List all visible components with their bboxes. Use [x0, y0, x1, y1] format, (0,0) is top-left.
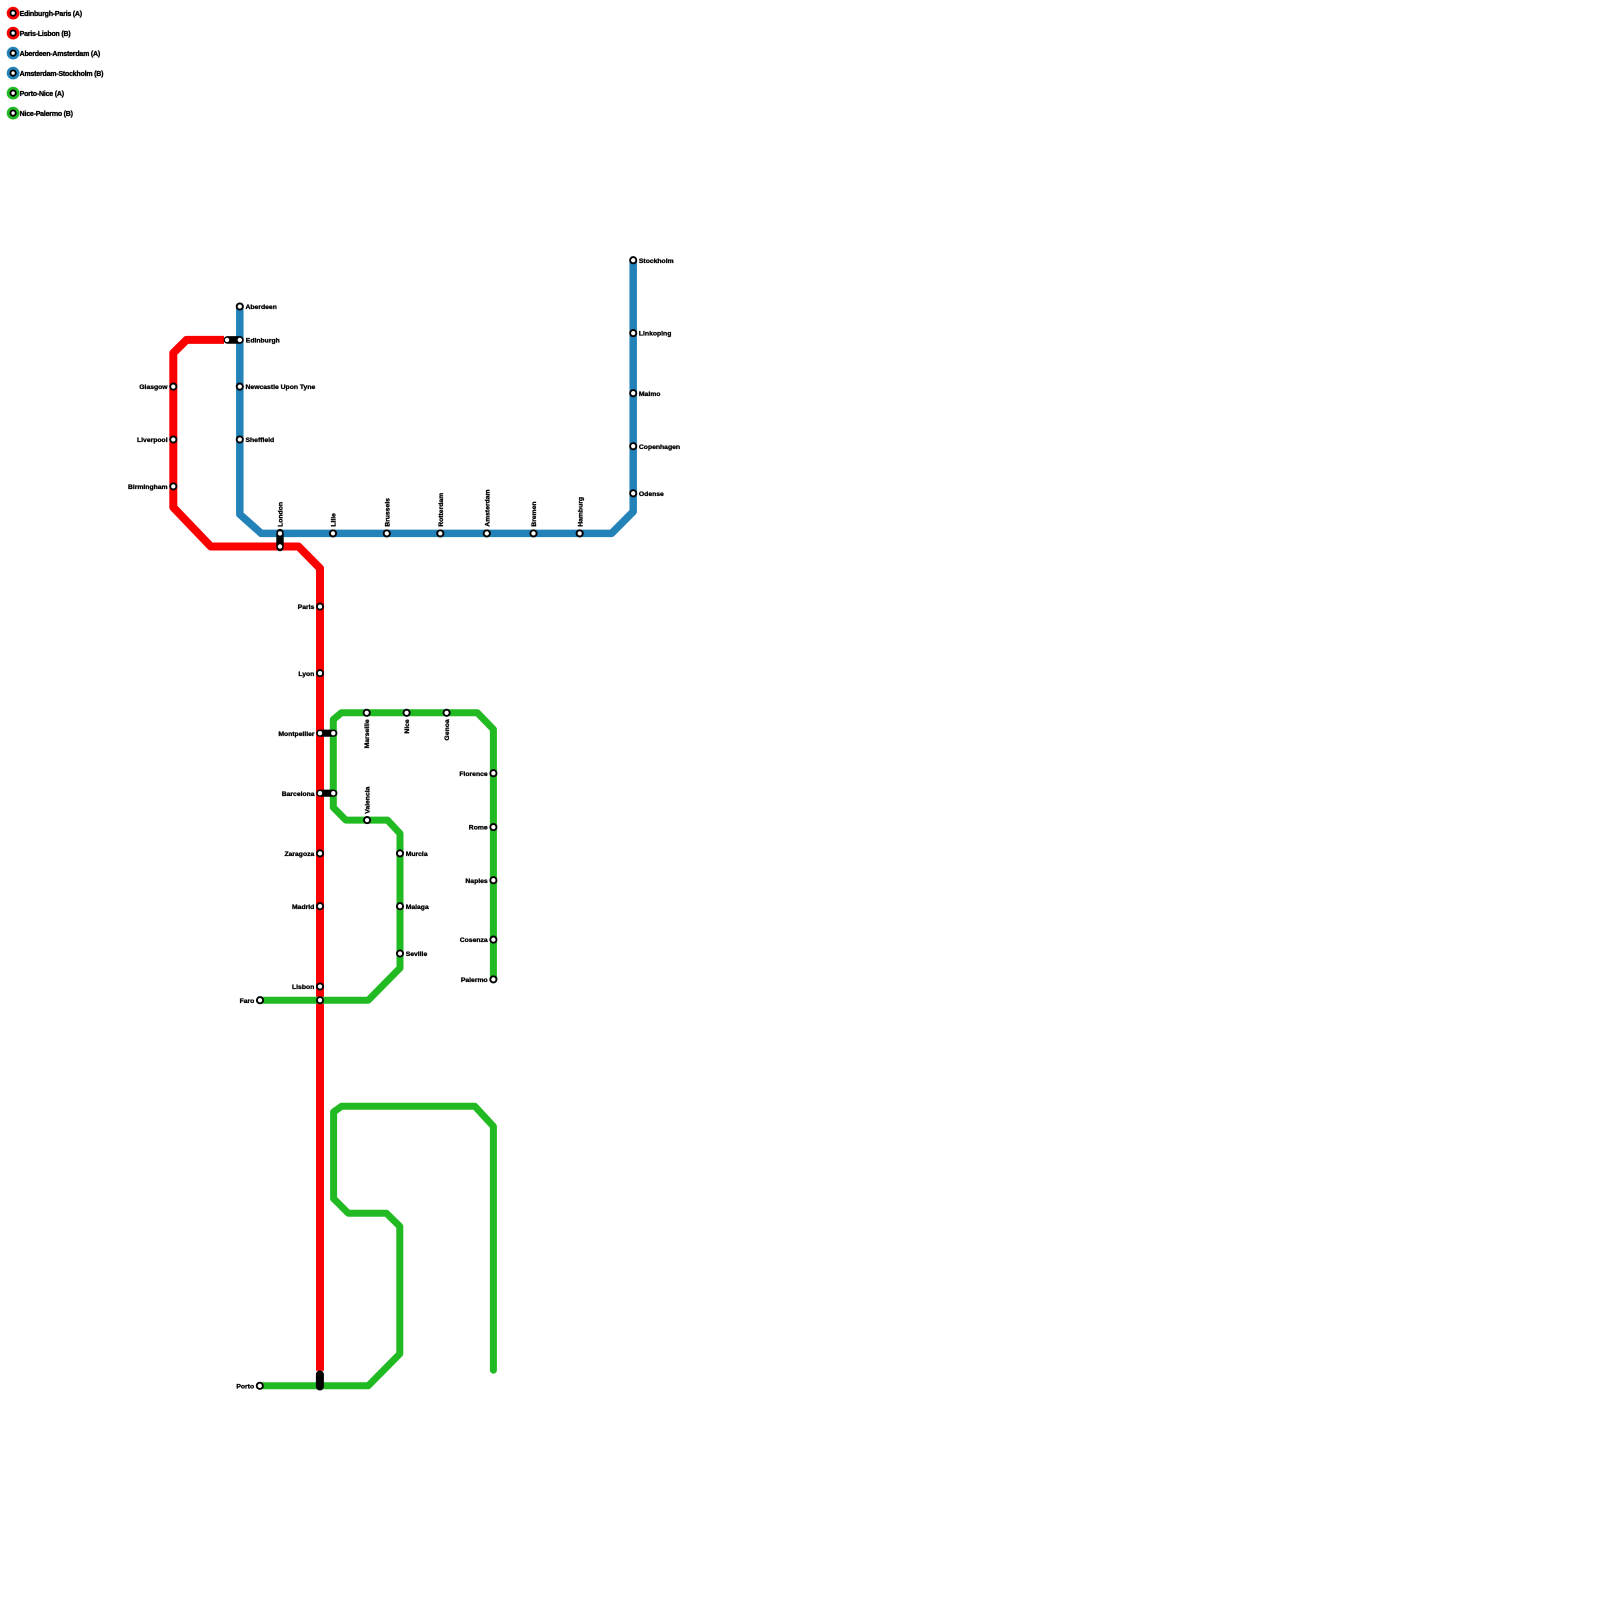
station Madrid [292, 903, 323, 911]
svg-text:Cosenza: Cosenza [460, 937, 488, 944]
station Rotterdam [437, 493, 445, 537]
station Liverpool [137, 436, 176, 444]
svg-text:Seville: Seville [406, 951, 428, 958]
svg-text:Naples: Naples [465, 878, 488, 885]
svg-text:Copenhagen: Copenhagen [639, 444, 680, 451]
svg-text:Valencia: Valencia [365, 786, 372, 813]
station Seville [397, 950, 428, 958]
svg-text:Amsterdam-Stockholm (B): Amsterdam-Stockholm (B) [20, 71, 104, 78]
svg-text:Odense: Odense [639, 491, 664, 498]
station Bremen [530, 501, 538, 536]
station Malaga [397, 903, 429, 911]
svg-text:Paris-Lisbon (B): Paris-Lisbon (B) [20, 31, 71, 38]
svg-text:Barcelona: Barcelona [282, 791, 315, 798]
svg-text:Florence: Florence [459, 771, 488, 778]
legend item Edinburgh-Paris (A) [8, 8, 82, 18]
station Porto [236, 1383, 263, 1391]
svg-text:Palermo: Palermo [461, 977, 488, 984]
station Stockholm [630, 257, 674, 265]
svg-text:London: London [278, 502, 285, 527]
svg-text:Porto: Porto [236, 1383, 254, 1390]
station Lisbon [292, 983, 323, 991]
svg-text:Faro: Faro [240, 998, 255, 1005]
legend item Nice-Palermo (B) [8, 108, 73, 118]
svg-text:Bremen: Bremen [531, 501, 538, 526]
station Sheffield [237, 436, 275, 444]
svg-text:Linkoping: Linkoping [639, 331, 671, 338]
station Palermo [461, 976, 497, 984]
svg-text:Hamburg: Hamburg [577, 497, 584, 527]
station Rome [469, 824, 497, 832]
station Zaragoza [284, 850, 323, 858]
svg-text:Lille: Lille [331, 513, 338, 527]
green line lower: Porto-Nice (B offset) [260, 1106, 494, 1386]
station Cosenza [460, 937, 497, 945]
svg-text:Brussels: Brussels [384, 498, 391, 527]
legend item Paris-Lisbon (B) [8, 28, 70, 38]
station Nice [404, 710, 411, 734]
svg-text:Montpellier: Montpellier [278, 731, 315, 738]
station Hamburg [577, 497, 585, 537]
interchange Montpellier [316, 730, 337, 737]
svg-text:Paris: Paris [298, 604, 315, 611]
svg-text:Edinburgh: Edinburgh [246, 337, 280, 344]
interchange Barcelona [316, 790, 337, 797]
station crossing dot [317, 997, 323, 1003]
blue line Aberdeen-Amsterdam / Amsterdam-Stockholm [240, 260, 633, 533]
station Faro [240, 997, 264, 1005]
green line upper: Faro-Montpellier-Nice-Palermo [260, 713, 493, 1000]
svg-text:Marseille: Marseille [364, 719, 371, 748]
svg-text:Rome: Rome [469, 825, 488, 832]
station Copenhagen [630, 443, 680, 451]
station Amsterdam [484, 489, 492, 536]
svg-text:Murcia: Murcia [406, 851, 428, 858]
svg-text:Edinburgh-Paris (A): Edinburgh-Paris (A) [20, 11, 82, 18]
station Lille [330, 513, 338, 537]
station Lyon [298, 670, 323, 678]
legend item Amsterdam-Stockholm (B) [8, 68, 103, 78]
svg-text:Genoa: Genoa [444, 719, 451, 740]
svg-text:Porto-Nice (A): Porto-Nice (A) [20, 91, 64, 98]
interchange London [276, 529, 283, 551]
station Newcastle Upon Tyne [237, 384, 316, 392]
svg-text:Liverpool: Liverpool [137, 437, 168, 444]
station Aberdeen [237, 303, 277, 311]
svg-text:Newcastle Upon Tyne: Newcastle Upon Tyne [246, 384, 316, 391]
station Murcia [397, 850, 428, 858]
svg-text:Glasgow: Glasgow [139, 384, 168, 391]
svg-text:Rotterdam: Rotterdam [438, 493, 445, 527]
svg-text:Stockholm: Stockholm [639, 258, 674, 265]
station Malmo [630, 390, 660, 398]
svg-text:Aberdeen: Aberdeen [246, 304, 277, 311]
station Birmingham [128, 483, 176, 491]
svg-text:Malaga: Malaga [406, 904, 429, 911]
legend item Aberdeen-Amsterdam (A) [8, 48, 100, 58]
red line Edinburgh-Paris / Paris-Lisbon [173, 340, 320, 1371]
station Marseille [364, 710, 371, 749]
interchange terminal [316, 1370, 324, 1390]
station Florence [459, 770, 496, 778]
station Paris [298, 604, 323, 612]
svg-text:Lisbon: Lisbon [292, 984, 314, 991]
svg-text:Sheffield: Sheffield [246, 437, 275, 444]
svg-text:Amsterdam: Amsterdam [484, 489, 491, 526]
svg-text:Malmo: Malmo [639, 391, 661, 398]
station Valencia [364, 786, 372, 823]
svg-text:Aberdeen-Amsterdam (A): Aberdeen-Amsterdam (A) [20, 51, 100, 58]
interchange Edinburgh [224, 336, 244, 344]
station Linkoping [630, 330, 671, 338]
svg-text:Nice: Nice [404, 719, 411, 734]
svg-text:Nice-Palermo (B): Nice-Palermo (B) [20, 111, 73, 118]
svg-text:Madrid: Madrid [292, 904, 314, 911]
station Brussels [384, 498, 392, 537]
svg-text:Zaragoza: Zaragoza [284, 851, 314, 858]
svg-text:Birmingham: Birmingham [128, 484, 168, 491]
legend item Porto-Nice (A) [8, 88, 64, 98]
station Glasgow [139, 384, 176, 392]
station Naples [465, 877, 496, 885]
station Odense [630, 490, 664, 498]
station Genoa [444, 710, 451, 741]
svg-text:Lyon: Lyon [298, 671, 314, 678]
